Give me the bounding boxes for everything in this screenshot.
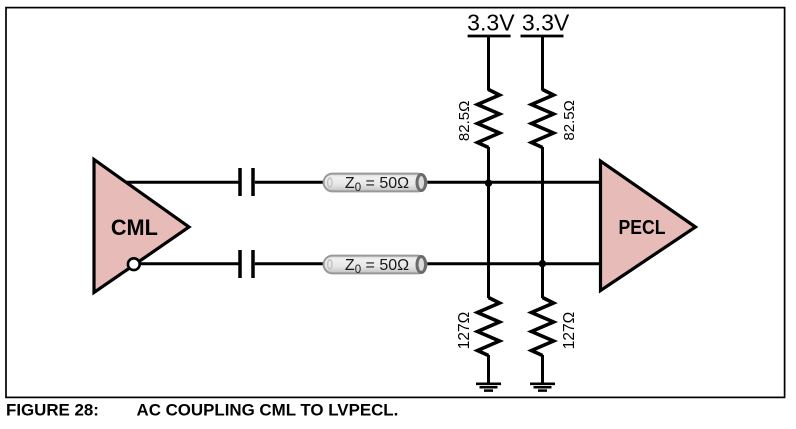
svg-text:CML: CML bbox=[111, 215, 158, 240]
caption FIGURE 28 bbox=[6, 401, 398, 420]
ground (right) bbox=[530, 384, 555, 391]
svg-text:Z0 = 50Ω: Z0 = 50Ω bbox=[345, 257, 409, 276]
capacitor C2 bbox=[240, 250, 253, 278]
svg-text:82.5Ω: 82.5Ω bbox=[456, 101, 473, 141]
wire: R3 to ground bbox=[487, 355, 490, 384]
wire: R2 down to node B (crosses upper line) bbox=[541, 147, 544, 264]
svg-text:127Ω: 127Ω bbox=[456, 312, 473, 349]
op-amp style driver U1 CML bbox=[94, 160, 189, 293]
wire: C2 to TL2 bbox=[255, 262, 330, 265]
svg-text:Z0 = 50Ω: Z0 = 50Ω bbox=[345, 175, 409, 194]
resistor R4 127Ω bbox=[532, 298, 578, 356]
receiver U2 PECL bbox=[601, 161, 696, 291]
node B junction dot bbox=[539, 260, 546, 267]
svg-text:FIGURE 28:: FIGURE 28: bbox=[6, 401, 99, 420]
wire: node A down to R3 (crosses lower line) bbox=[487, 183, 490, 299]
svg-text:3.3V: 3.3V bbox=[522, 10, 570, 36]
resistor R3 127Ω bbox=[456, 298, 500, 356]
wire: R4 to ground bbox=[541, 355, 544, 384]
transmission line TL2 Z0 = 50Ω bbox=[324, 256, 427, 276]
resistor R2 82.5Ω bbox=[532, 90, 578, 148]
wire: TL1 to PECL input (through node A) bbox=[420, 181, 602, 184]
wire: R1 to node A bbox=[487, 147, 490, 183]
svg-text:PECL: PECL bbox=[619, 216, 666, 239]
svg-text:127Ω: 127Ω bbox=[561, 312, 578, 349]
svg-text:82.5Ω: 82.5Ω bbox=[561, 100, 578, 140]
wire: 3.3V rail to R1 bbox=[487, 36, 490, 91]
wire: CML inverted output to C2 bbox=[139, 262, 239, 265]
transmission line TL1 Z0 = 50Ω bbox=[324, 174, 427, 195]
ground (left) bbox=[476, 384, 501, 391]
wire: TL2 to PECL inverted input (through node B) bbox=[420, 262, 602, 265]
inversion bubble on CML output bbox=[128, 258, 140, 270]
wire: CML true output to C1 bbox=[122, 181, 239, 184]
power rail 3.3V (left) bbox=[467, 10, 515, 37]
svg-text:AC COUPLING CML TO LVPECL.: AC COUPLING CML TO LVPECL. bbox=[137, 401, 399, 420]
svg-text:3.3V: 3.3V bbox=[467, 10, 515, 36]
wire: C1 to TL1 bbox=[255, 181, 330, 184]
node A junction dot bbox=[485, 179, 492, 186]
wire: 3.3V rail to R2 bbox=[541, 36, 544, 91]
resistor R1 82.5Ω bbox=[456, 90, 500, 148]
power rail 3.3V (right) bbox=[521, 10, 570, 37]
wire: node B to R4 bbox=[541, 264, 544, 298]
capacitor C1 bbox=[240, 168, 253, 196]
